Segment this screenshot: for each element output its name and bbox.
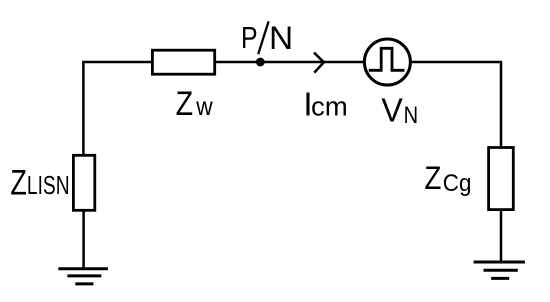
impedance Zw (series box) bbox=[152, 50, 214, 74]
label VN bbox=[381, 92, 418, 130]
svg-text:w: w bbox=[195, 93, 213, 121]
wire left vertical and top-left horizontal bbox=[83, 62, 152, 156]
wire Zw to source circle bbox=[215, 61, 365, 64]
current arrow Icm bbox=[314, 53, 324, 73]
svg-text:N: N bbox=[269, 19, 293, 56]
svg-text:Z: Z bbox=[424, 159, 441, 196]
label ZLISN bbox=[10, 163, 69, 202]
impedance Z_LISN (shunt box left) bbox=[73, 155, 94, 210]
svg-text:Z: Z bbox=[10, 163, 27, 202]
svg-text:P: P bbox=[241, 21, 258, 55]
label Zw bbox=[176, 85, 214, 123]
svg-text:N: N bbox=[404, 102, 419, 129]
label P/N bbox=[241, 19, 293, 56]
label ZCg bbox=[424, 159, 471, 197]
wire source to right corner and down bbox=[410, 62, 501, 148]
ground left bbox=[58, 269, 108, 284]
node P/N (junction dot) bbox=[256, 58, 265, 67]
wire Z_Cg to ground bbox=[500, 210, 503, 262]
voltage source VN (pulse source circle) bbox=[364, 39, 410, 85]
impedance Z_Cg (shunt box right) bbox=[489, 148, 514, 210]
svg-text:LISN: LISN bbox=[27, 172, 70, 200]
label Icm bbox=[303, 87, 347, 124]
svg-text:Z: Z bbox=[176, 85, 194, 123]
svg-text:V: V bbox=[381, 92, 403, 130]
ground right bbox=[474, 262, 525, 278]
wire Z_LISN to ground bbox=[82, 210, 85, 268]
svg-text:cm: cm bbox=[311, 92, 348, 122]
svg-text:Cg: Cg bbox=[443, 170, 472, 197]
